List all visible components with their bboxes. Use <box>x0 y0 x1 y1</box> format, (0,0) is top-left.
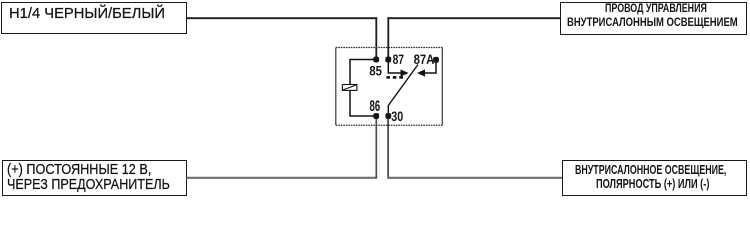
node: box H1/4 ЧЕРНЫЙ/БЕЛЫЙ (headlamp wire label) <box>1 2 187 35</box>
wire: +12V box horizontal run (gray) <box>187 177 378 179</box>
node: box ВНУТРИСАЛОННОЕ ОСВЕЩЕНИЕ, ПОЛЯРНОСТЬ (+) ИЛИ (-) <box>562 160 747 197</box>
junction dot: pin 87A <box>433 57 439 63</box>
wire: H1/4 box to vertical drop <box>187 17 378 19</box>
wire: coil to pin 86 <box>350 90 376 116</box>
wire: pin 85 to coil <box>350 60 376 85</box>
pin label 30 <box>391 111 402 121</box>
switch arm: movable contact from pin 30 <box>388 65 418 117</box>
wire: relay pin 87 vertical rise <box>387 17 389 59</box>
relay K1 outline: left edge <box>335 48 337 126</box>
pin label 87 <box>393 55 404 64</box>
node: box (+) ПОСТОЯННЫЕ 12 В, ЧЕРЕЗ ПРЕДОХРАНИТЕЛЬ <box>2 160 187 196</box>
junction dot: pin 87 <box>385 57 391 63</box>
node: box ПРОВОД УПРАВЛЕНИЯ ВНУТРИСАЛОННЫМ ОСВЕЩЕНИЕМ <box>560 2 747 35</box>
pin label 87A <box>414 55 434 64</box>
contact throw 87: shaft and right arrow <box>388 60 408 77</box>
wire: horizontal run to control-wire box <box>387 17 560 19</box>
mechanical link (dashed actuator line) <box>386 76 403 79</box>
wire: vertical drop to relay pin 85 <box>375 17 377 59</box>
contact throw 87A: shaft and left arrow <box>417 60 436 77</box>
relay K1 outline: top edge (dotted scan texture) <box>336 47 443 49</box>
coil (relay winding) <box>342 85 357 91</box>
relay K1 outline: right edge <box>441 48 443 126</box>
relay K1 outline: bottom edge (dotted scan texture) <box>336 124 443 126</box>
wire: horizontal run to interior-lighting box (gray) <box>387 177 562 179</box>
junction dot: pin 86 <box>373 113 379 119</box>
wire: vertical rise to relay pin 86 <box>375 116 377 178</box>
pin label 85 <box>370 66 382 76</box>
wire: relay pin 30 vertical drop <box>387 116 389 178</box>
junction dot: pin 85 <box>373 57 379 63</box>
junction dot: pin 30 <box>385 113 391 119</box>
pin label 86 <box>370 100 380 111</box>
